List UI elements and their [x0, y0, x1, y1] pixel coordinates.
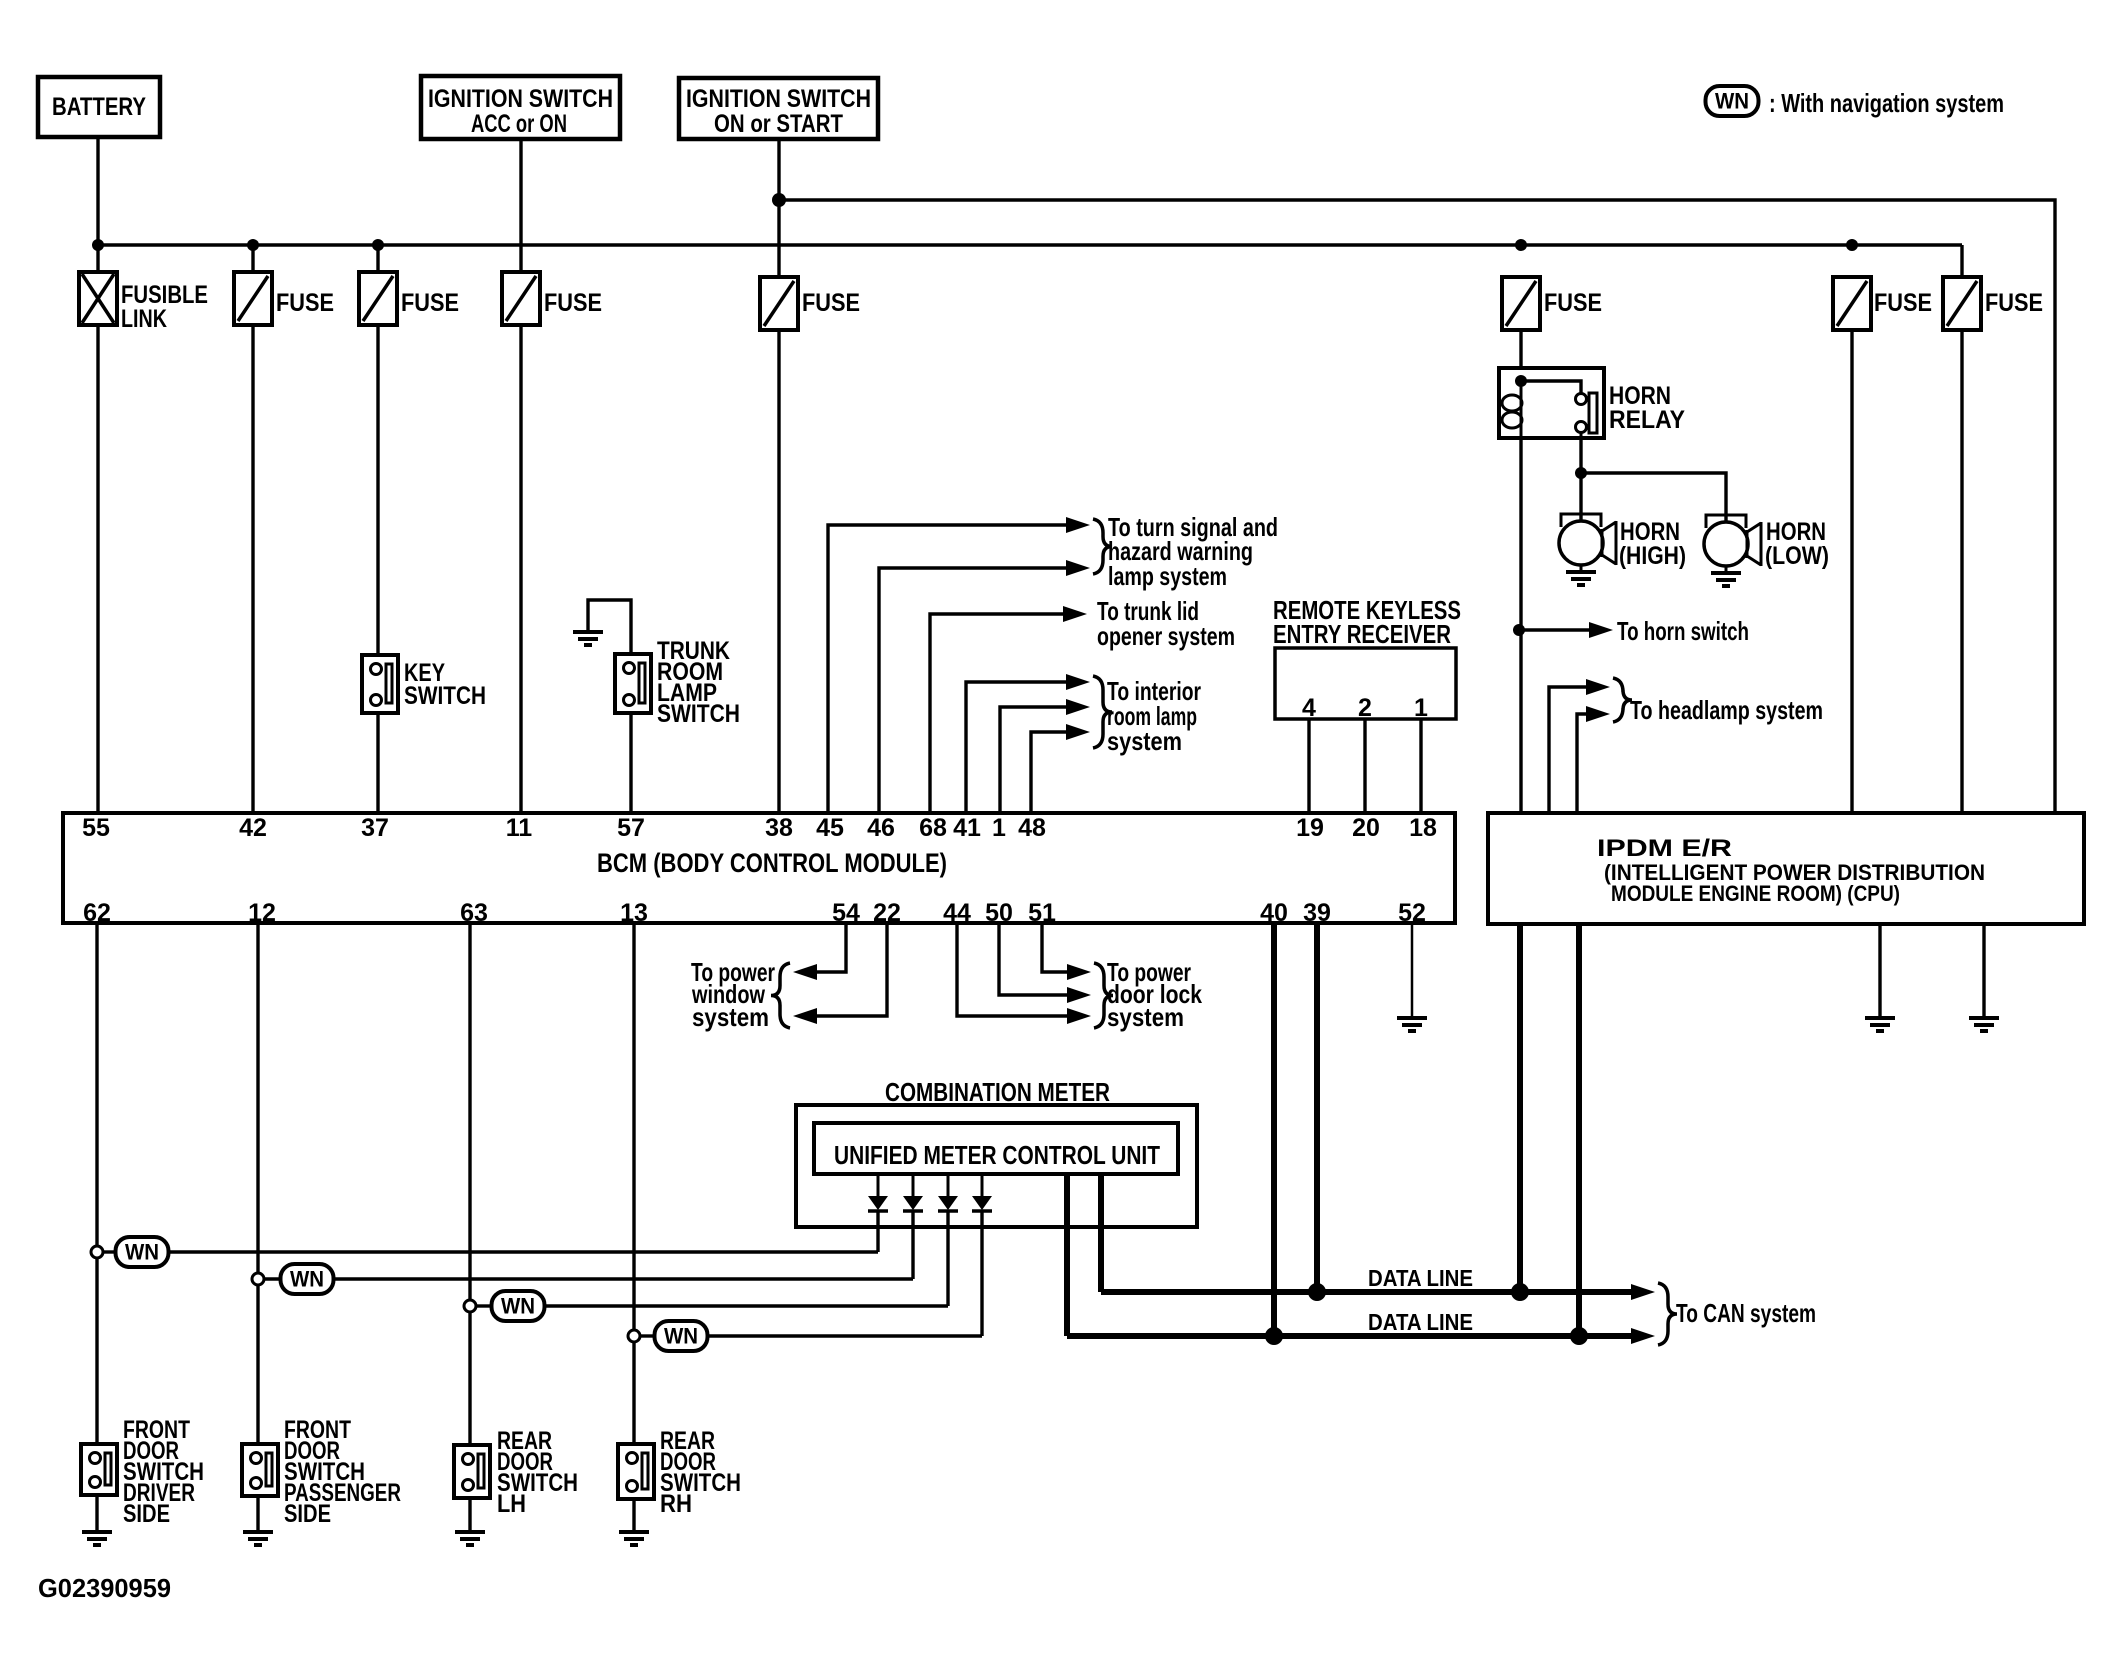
pin 1 label: [1414, 694, 1428, 722]
label To headlamp system: [1630, 695, 1823, 725]
svg-text:LH: LH: [497, 1490, 526, 1518]
node ON/START branch junction: [772, 193, 786, 207]
wire pin45 to turn signal arrow: [828, 517, 1090, 813]
svg-text:46: 46: [867, 814, 895, 842]
svg-text:18: 18: [1409, 814, 1437, 842]
node horn switch tap: [1513, 624, 1525, 636]
label rear door switch RH: [660, 1427, 741, 1518]
label HORN (LOW): [1765, 518, 1829, 570]
svg-text:45: 45: [816, 814, 844, 842]
node data lower pin40: [1265, 1327, 1283, 1345]
svg-text:FUSE: FUSE: [276, 289, 334, 317]
ground IPDM 2: [1969, 1018, 1999, 1031]
ground front door switch passenger: [243, 1496, 273, 1545]
svg-text:52: 52: [1398, 899, 1426, 927]
svg-text:WN: WN: [501, 1294, 535, 1319]
wire IPDM ground 2: [1982, 924, 1985, 1018]
wire BCM pin12 down: [256, 923, 259, 1444]
svg-text:COMBINATION METER: COMBINATION METER: [885, 1077, 1110, 1107]
brace CAN: [1658, 1283, 1677, 1345]
svg-text:37: 37: [361, 814, 389, 842]
svg-text:To CAN system: To CAN system: [1676, 1298, 1816, 1328]
unified meter control unit box: [814, 1123, 1178, 1174]
node relay coil junction: [1515, 375, 1527, 387]
label To CAN system: [1676, 1298, 1816, 1328]
label DATA LINE lower: [1368, 1309, 1473, 1335]
BCM (body control module) box: [63, 813, 1455, 923]
wire pin48 to interior arrow: [1031, 724, 1090, 813]
svg-text:DATA LINE: DATA LINE: [1368, 1309, 1473, 1335]
svg-text:50: 50: [985, 899, 1013, 927]
svg-text:20: 20: [1352, 814, 1380, 842]
svg-text:1: 1: [1414, 694, 1428, 722]
wire IPDM to data line 2: [1576, 924, 1582, 1336]
svg-text:FUSE: FUSE: [401, 289, 459, 317]
pin 2 label: [1358, 694, 1372, 722]
svg-text:39: 39: [1303, 899, 1331, 927]
wire UMCU data out 2: [1064, 1174, 1070, 1336]
svg-text:1: 1: [992, 814, 1006, 842]
label FUSE F4: [802, 289, 860, 317]
horn low: [1704, 515, 1761, 566]
brace power window: [771, 963, 790, 1028]
wire WN3 to diode D3: [476, 1211, 948, 1306]
label interior lamp: [1107, 676, 1201, 756]
svg-text:51: 51: [1028, 899, 1056, 927]
node bus-fuse37 junction: [372, 239, 384, 251]
diode D2: [903, 1174, 923, 1211]
svg-text:To headlamp system: To headlamp system: [1630, 695, 1823, 725]
label front door switch passenger: [284, 1416, 401, 1528]
label FUSE F2: [401, 289, 459, 317]
brace headlamp: [1613, 678, 1632, 722]
wire WN1 to diode D1: [103, 1211, 878, 1252]
brace power door lock: [1094, 963, 1113, 1028]
wire trunk switch to ground: [588, 600, 631, 654]
brace turn signal: [1093, 519, 1112, 574]
svg-text:68: 68: [919, 814, 947, 842]
WN oval 3: [492, 1291, 545, 1321]
node data upper IPDM: [1511, 1283, 1529, 1301]
wire data line lower: [1067, 1328, 1655, 1344]
svg-text:IGNITION SWITCH: IGNITION SWITCH: [686, 85, 871, 113]
fuse F1 (pin 42): [234, 272, 272, 325]
svg-text:41: 41: [953, 814, 981, 842]
rear door switch RH: [618, 1444, 654, 1499]
svg-text:G02390959: G02390959: [38, 1573, 171, 1603]
node bus-horn-fuse junction: [1515, 239, 1527, 251]
label HORN RELAY: [1609, 382, 1685, 434]
label COMBINATION METER: [885, 1077, 1110, 1107]
wire ON/START feed to IPDM: [779, 200, 2055, 813]
brace interior lamp: [1093, 676, 1112, 748]
fuse F3 (pin 11): [502, 272, 540, 325]
label IPDM E/R: [1597, 835, 1985, 906]
wire fusible link to BCM pin 55: [96, 325, 99, 813]
node battery-bus junction: [92, 239, 104, 251]
wire bus to fusible link: [96, 245, 99, 274]
svg-text:54: 54: [832, 899, 860, 927]
horn relay U1 box: [1499, 368, 1604, 438]
svg-text:RH: RH: [660, 1490, 692, 1518]
WN oval 1: [116, 1237, 169, 1267]
horn high: [1559, 514, 1616, 565]
ground trunk lamp switch: [573, 632, 603, 645]
ground BCM pin 52: [1397, 1018, 1427, 1031]
wire UMCU data out 1: [1098, 1174, 1104, 1292]
wire pin54 to power window arrow: [793, 923, 846, 980]
fuse F5 (horn relay): [1502, 277, 1540, 330]
BCM top pin labels: [82, 814, 1437, 842]
ground rear door switch LH: [455, 1498, 485, 1545]
label FUSE F5: [1544, 289, 1602, 317]
key switch: [362, 655, 398, 713]
label BCM: [597, 848, 947, 878]
label FUSE F6: [1874, 289, 1932, 317]
node WN tap 1: [91, 1246, 103, 1258]
fuse F2 (pin 37): [359, 272, 397, 325]
fuse F6 (IPDM): [1833, 277, 1871, 330]
wire BCM pin39 to data line: [1314, 923, 1320, 1292]
svg-text:40: 40: [1260, 899, 1288, 927]
battery: [38, 77, 160, 137]
svg-text:system: system: [1107, 1002, 1184, 1032]
wire pin44 to door lock arrow: [957, 923, 1091, 1024]
svg-text:system: system: [692, 1002, 769, 1032]
node WN tap 4: [628, 1330, 640, 1342]
label front door switch driver: [123, 1416, 204, 1528]
wire bus corner to right fuse: [1960, 245, 1963, 277]
svg-text:12: 12: [248, 899, 276, 927]
wire fuse F4 to BCM pin 38: [777, 330, 780, 813]
wire bus to fuse F1: [251, 245, 254, 274]
front door switch passenger side: [242, 1444, 278, 1496]
svg-text:FUSE: FUSE: [1985, 289, 2043, 317]
wire fuse F7 to IPDM: [1960, 330, 1963, 813]
svg-text:22: 22: [873, 899, 901, 927]
svg-text:55: 55: [82, 814, 110, 842]
wire IPDM ground 1: [1878, 924, 1881, 1018]
svg-text:LINK: LINK: [121, 305, 167, 333]
wire horn feed to horn low: [1581, 473, 1726, 522]
wire BCM pin13 down: [632, 923, 635, 1444]
label UNIFIED METER CONTROL UNIT: [834, 1140, 1160, 1170]
svg-text:DATA LINE: DATA LINE: [1368, 1265, 1473, 1291]
node bus-right-fuse junction: [1846, 239, 1858, 251]
label trunk lid: [1097, 596, 1235, 651]
svg-text:13: 13: [620, 899, 648, 927]
diode D3: [938, 1174, 958, 1211]
wire trunk switch to BCM pin 57: [629, 713, 632, 813]
svg-text:(HIGH): (HIGH): [1619, 542, 1686, 570]
node data upper pin39: [1308, 1283, 1326, 1301]
diode D4: [972, 1174, 992, 1211]
svg-text:SIDE: SIDE: [123, 1500, 170, 1528]
svg-text:WN: WN: [125, 1240, 159, 1265]
svg-text:MODULE ENGINE ROOM) (CPU): MODULE ENGINE ROOM) (CPU): [1611, 881, 1900, 906]
svg-text:11: 11: [506, 814, 533, 842]
svg-text:63: 63: [460, 899, 488, 927]
ground rear door switch RH: [619, 1499, 649, 1545]
wire pin46 to turn signal arrow: [879, 560, 1090, 813]
ground horn high: [1566, 565, 1596, 585]
wire fuse F3 to BCM pin 11: [519, 325, 522, 813]
wire pin1 to interior arrow: [1000, 699, 1090, 813]
svg-text:FUSE: FUSE: [802, 289, 860, 317]
svg-text:BCM (BODY CONTROL MODULE): BCM (BODY CONTROL MODULE): [597, 848, 947, 878]
svg-text:2: 2: [1358, 694, 1372, 722]
label FUSE F7: [1985, 289, 2043, 317]
label REMOTE KEYLESS ENTRY RECEIVER: [1273, 595, 1461, 649]
BCM bottom pin labels: [83, 899, 1426, 927]
pin 4 label: [1302, 694, 1316, 722]
diode D1: [868, 1174, 888, 1211]
svg-text:WN: WN: [290, 1267, 324, 1292]
label To horn switch: [1617, 616, 1749, 646]
label TRUNK ROOM LAMP SWITCH: [657, 637, 740, 728]
label KEY SWITCH: [404, 659, 486, 710]
svg-text:44: 44: [943, 899, 971, 927]
svg-text:4: 4: [1302, 694, 1316, 722]
svg-text:RELAY: RELAY: [1609, 406, 1685, 434]
label turn signal: [1108, 512, 1278, 591]
fuse F7 (IPDM): [1943, 277, 1981, 330]
ground horn low: [1711, 566, 1741, 586]
wire relay contact to horns: [1579, 438, 1582, 473]
svg-text:(LOW): (LOW): [1765, 542, 1829, 570]
label FUSE F1: [276, 289, 334, 317]
front door switch driver side: [81, 1444, 117, 1495]
combination meter box: [796, 1105, 1197, 1227]
WN legend text: [1769, 88, 2004, 118]
wire BCM pin62 down: [95, 923, 98, 1444]
wire key switch to BCM pin 37: [376, 713, 379, 813]
svg-text:ON or START: ON or START: [714, 110, 843, 138]
node data lower IPDM: [1570, 1327, 1588, 1345]
svg-text:ACC or ON: ACC or ON: [471, 110, 567, 138]
svg-text:42: 42: [239, 814, 267, 842]
wire main battery bus: [98, 243, 1962, 246]
label DATA LINE upper: [1368, 1265, 1473, 1291]
wire fuse F6 to IPDM: [1850, 330, 1853, 813]
rear door switch LH: [454, 1445, 490, 1498]
wire to horn switch arrow: [1519, 622, 1613, 638]
ignition switch ON or START box: [679, 78, 878, 139]
WN oval 2: [281, 1264, 334, 1294]
wire BCM pin40 to data line: [1271, 923, 1277, 1336]
wire data line upper: [1101, 1284, 1655, 1300]
wire fuse F1 to BCM pin 42: [251, 325, 254, 813]
wire BCM pin63 down: [468, 923, 471, 1445]
wire headlamp 2 from IPDM: [1577, 706, 1610, 813]
wire fuse F5 to horn relay: [1519, 330, 1522, 368]
wire receiver pin4 to BCM 19: [1307, 719, 1310, 813]
svg-text:lamp system: lamp system: [1108, 561, 1227, 591]
remote keyless entry receiver box: [1275, 648, 1456, 719]
wire fuse F2 to key switch: [376, 325, 379, 655]
fusible link: [79, 272, 117, 325]
IPDM E/R box: [1488, 813, 2084, 924]
relay coil: [1502, 381, 1522, 438]
node horn feed junction: [1575, 467, 1587, 479]
svg-text:system: system: [1107, 726, 1182, 756]
ignition switch ACC or ON box: [421, 76, 620, 139]
svg-text:BATTERY: BATTERY: [52, 93, 146, 121]
WN oval 4: [655, 1321, 708, 1351]
svg-text:IPDM E/R: IPDM E/R: [1597, 835, 1732, 862]
svg-text:48: 48: [1018, 814, 1046, 842]
svg-text:FUSE: FUSE: [544, 289, 602, 317]
WN legend symbol: [1706, 86, 1759, 116]
svg-text:WN: WN: [664, 1324, 698, 1349]
svg-text:UNIFIED METER CONTROL UNIT: UNIFIED METER CONTROL UNIT: [834, 1140, 1160, 1170]
svg-text:WN: WN: [1715, 89, 1749, 114]
svg-text:SWITCH: SWITCH: [404, 682, 486, 710]
label FUSIBLE LINK: [121, 281, 208, 333]
svg-text:62: 62: [83, 899, 111, 927]
svg-text:To horn switch: To horn switch: [1617, 616, 1749, 646]
wire WN4 to diode D4: [640, 1211, 982, 1336]
node WN tap 2: [252, 1273, 264, 1285]
wire pin41 to interior arrow: [966, 674, 1090, 813]
wire horn feed to horn high: [1579, 473, 1582, 521]
svg-text:FUSE: FUSE: [1544, 289, 1602, 317]
wire pin22 to power window arrow: [793, 923, 887, 1024]
svg-text:ENTRY RECEIVER: ENTRY RECEIVER: [1273, 619, 1451, 649]
wire pin50 to door lock arrow: [999, 923, 1091, 1003]
label power door lock: [1107, 957, 1202, 1032]
svg-text:SIDE: SIDE: [284, 1500, 331, 1528]
label HORN (HIGH): [1619, 518, 1686, 570]
figure number G02390959: [38, 1573, 171, 1603]
label FUSE F3: [544, 289, 602, 317]
svg-text:SWITCH: SWITCH: [657, 700, 740, 728]
wire receiver pin1 to BCM 18: [1419, 719, 1422, 813]
node bus-fuse42 junction: [247, 239, 259, 251]
wire WN2 to diode D2: [264, 1211, 913, 1279]
wire ACC switch to fuse: [519, 139, 522, 272]
svg-text:opener system: opener system: [1097, 621, 1235, 651]
wire pin52 to ground: [1411, 923, 1414, 1018]
svg-text:19: 19: [1296, 814, 1324, 842]
relay contact: [1521, 381, 1597, 438]
ground front door switch driver: [82, 1495, 112, 1545]
wire relay coil to IPDM: [1519, 438, 1522, 813]
wire headlamp 1 from IPDM: [1549, 679, 1610, 813]
label power window: [691, 957, 775, 1032]
ground IPDM 1: [1865, 1018, 1895, 1031]
fuse F4 (pin 38): [760, 277, 798, 330]
wire receiver pin2 to BCM 20: [1363, 719, 1366, 813]
svg-text:FUSE: FUSE: [1874, 289, 1932, 317]
label rear door switch LH: [497, 1427, 578, 1518]
trunk room lamp switch: [615, 654, 651, 713]
wire pin68 to trunk lid arrow: [930, 606, 1087, 813]
svg-text:IGNITION SWITCH: IGNITION SWITCH: [428, 85, 613, 113]
wire ON/START switch down: [777, 139, 780, 277]
node WN tap 3: [464, 1300, 476, 1312]
svg-text:38: 38: [765, 814, 793, 842]
wire pin51 to door lock arrow: [1042, 923, 1091, 980]
svg-text:57: 57: [617, 814, 645, 842]
svg-text:: With navigation system: : With navigation system: [1769, 88, 2004, 118]
wire battery to bus: [96, 137, 99, 245]
wire IPDM to data line 1: [1517, 924, 1523, 1292]
wire bus to fuse F2: [376, 245, 379, 274]
